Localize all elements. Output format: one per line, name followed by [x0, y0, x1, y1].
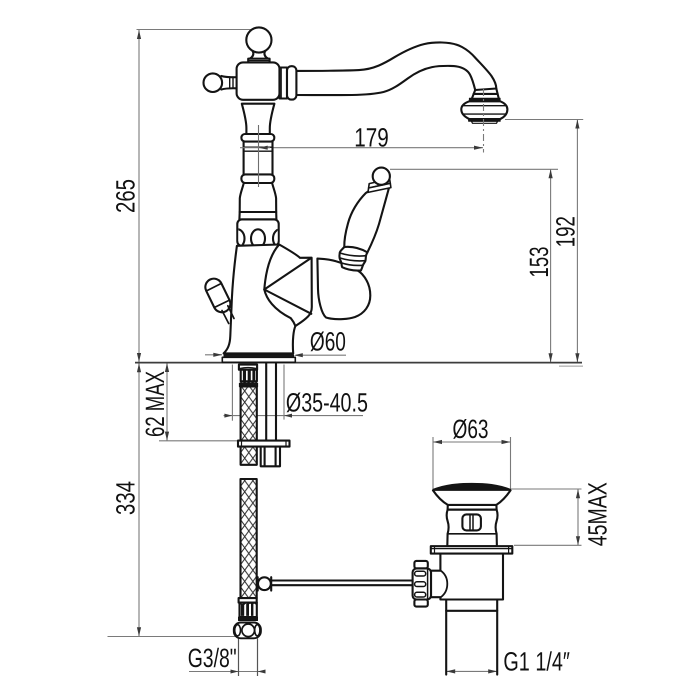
svg-text:45MAX: 45MAX — [583, 482, 613, 546]
svg-text:Ø35-40.5: Ø35-40.5 — [286, 388, 368, 418]
svg-text:Ø60: Ø60 — [310, 326, 346, 356]
svg-text:G1 1/4″: G1 1/4″ — [503, 647, 570, 677]
svg-text:Ø63: Ø63 — [453, 414, 489, 444]
svg-text:153: 153 — [524, 247, 554, 278]
svg-text:179: 179 — [354, 123, 389, 153]
svg-text:265: 265 — [111, 179, 141, 213]
svg-text:62 MAX: 62 MAX — [140, 371, 170, 437]
svg-text:G3/8": G3/8" — [188, 643, 237, 673]
svg-text:334: 334 — [111, 481, 141, 515]
svg-text:192: 192 — [550, 216, 580, 247]
